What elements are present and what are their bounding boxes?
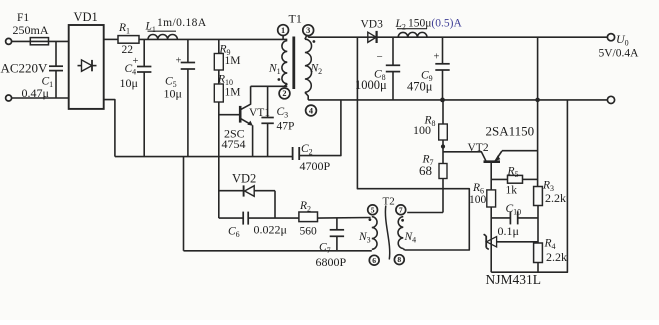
svg-text:150μ(0.5)A: 150μ(0.5)A: [408, 18, 462, 30]
svg-text:1M: 1M: [225, 87, 241, 99]
svg-text:8: 8: [397, 255, 401, 264]
svg-text:250mA: 250mA: [13, 23, 49, 37]
svg-text:U0: U0: [616, 32, 629, 48]
svg-text:NJM431L: NJM431L: [486, 272, 542, 287]
svg-text:7: 7: [399, 205, 403, 214]
svg-text:4754: 4754: [222, 137, 246, 151]
svg-text:+: +: [176, 56, 182, 67]
svg-text:R5: R5: [507, 166, 519, 180]
svg-text:22: 22: [122, 44, 134, 56]
svg-text:2.2k: 2.2k: [546, 250, 567, 264]
svg-text:N3: N3: [358, 231, 371, 245]
svg-text:R10: R10: [217, 74, 233, 88]
svg-text:C3: C3: [277, 106, 289, 120]
svg-text:4: 4: [309, 106, 313, 115]
svg-text:R2: R2: [299, 200, 311, 214]
svg-text:L1: L1: [145, 21, 156, 35]
svg-text:−: −: [377, 51, 383, 63]
svg-text:2SA1150: 2SA1150: [486, 123, 535, 138]
svg-text:10μ: 10μ: [164, 87, 182, 101]
svg-text:470μ: 470μ: [407, 79, 433, 93]
svg-text:47P: 47P: [277, 121, 295, 133]
svg-text:+: +: [434, 52, 440, 63]
svg-text:6800P: 6800P: [316, 255, 347, 269]
svg-text:2: 2: [282, 89, 286, 98]
svg-text:VT2: VT2: [468, 142, 489, 154]
svg-text:C10: C10: [506, 203, 522, 217]
svg-text:68: 68: [419, 163, 432, 178]
svg-text:VD2: VD2: [232, 172, 256, 186]
svg-text:VD1: VD1: [74, 10, 98, 24]
svg-text:C7: C7: [319, 242, 331, 256]
svg-text:+: +: [133, 56, 139, 67]
svg-text:T1: T1: [289, 12, 302, 26]
svg-text:1M: 1M: [225, 55, 241, 67]
svg-text:4700P: 4700P: [300, 159, 331, 173]
svg-text:R1: R1: [118, 22, 130, 36]
svg-text:0.022μ: 0.022μ: [254, 223, 287, 237]
svg-text:560: 560: [300, 226, 318, 238]
svg-text:VD3: VD3: [361, 19, 384, 31]
svg-text:2.2k: 2.2k: [545, 191, 566, 205]
svg-text:N4: N4: [404, 231, 417, 245]
svg-text:C2: C2: [301, 143, 313, 157]
svg-text:AC220V: AC220V: [1, 61, 49, 76]
svg-text:N1: N1: [268, 63, 281, 77]
svg-text:10μ: 10μ: [120, 76, 138, 90]
svg-text:100: 100: [469, 194, 487, 206]
svg-text:6: 6: [372, 256, 376, 265]
svg-text:N2: N2: [310, 63, 323, 77]
svg-text:1k: 1k: [506, 184, 518, 196]
svg-text:1: 1: [281, 26, 285, 35]
svg-text:5: 5: [371, 205, 375, 214]
svg-text:0.1μ: 0.1μ: [498, 224, 519, 238]
svg-text:100: 100: [413, 123, 431, 137]
svg-text:3: 3: [306, 26, 310, 35]
svg-text:1m/0.18A: 1m/0.18A: [157, 17, 207, 29]
svg-text:0.47μ: 0.47μ: [22, 86, 49, 100]
svg-text:C6: C6: [228, 226, 240, 240]
svg-text:R4: R4: [544, 237, 556, 251]
svg-text:VT1: VT1: [249, 107, 270, 119]
svg-text:T2: T2: [383, 196, 395, 208]
svg-text:L2: L2: [395, 18, 406, 32]
svg-text:1000μ: 1000μ: [355, 78, 387, 92]
svg-text:5V/0.4A: 5V/0.4A: [599, 47, 640, 59]
